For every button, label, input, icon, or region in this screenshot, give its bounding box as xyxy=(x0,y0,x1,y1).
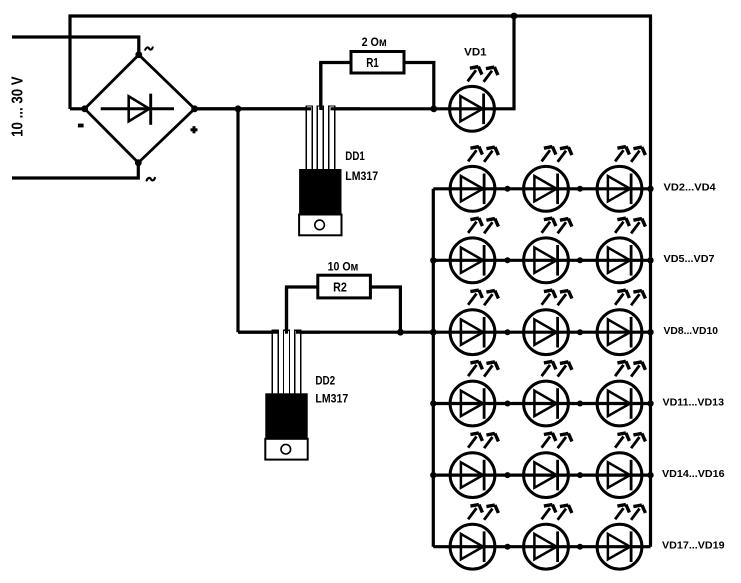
svg-text:VD11...VD13: VD11...VD13 xyxy=(663,396,725,408)
svg-text:2 Ом: 2 Ом xyxy=(362,35,387,49)
svg-text:LM317: LM317 xyxy=(315,393,348,405)
svg-text:VD2...VD4: VD2...VD4 xyxy=(664,182,716,194)
svg-text:LM317: LM317 xyxy=(345,171,378,183)
svg-text:VD8...VD10: VD8...VD10 xyxy=(664,325,719,337)
svg-text:VD5...VD7: VD5...VD7 xyxy=(664,253,715,265)
svg-text:VD17...VD19: VD17...VD19 xyxy=(662,540,725,552)
svg-text:10 ... 30 V: 10 ... 30 V xyxy=(10,76,27,137)
svg-text:DD2: DD2 xyxy=(315,375,335,387)
svg-text:VD1: VD1 xyxy=(464,46,486,58)
svg-text:10 Ом: 10 Ом xyxy=(328,259,359,273)
svg-text:R2: R2 xyxy=(333,280,347,294)
svg-text:VD14...VD16: VD14...VD16 xyxy=(662,468,725,480)
svg-text:DD1: DD1 xyxy=(345,151,365,163)
svg-text:R1: R1 xyxy=(366,56,379,70)
